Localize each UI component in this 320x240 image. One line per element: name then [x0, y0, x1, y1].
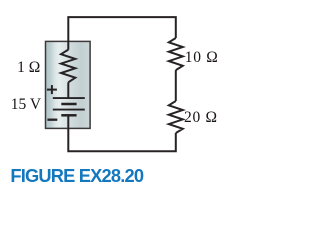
resistor 20ohm: [169, 101, 183, 133]
battery plate long: [53, 109, 85, 111]
wire between right resistors: [175, 70, 177, 101]
svg-text:15 V: 15 V: [11, 96, 42, 113]
svg-text:1 Ω: 1 Ω: [17, 59, 40, 76]
svg-text:20 Ω: 20 Ω: [184, 109, 218, 126]
minus terminal: [47, 119, 57, 121]
svg-text:10 Ω: 10 Ω: [185, 49, 219, 66]
resistor 10ohm: [169, 38, 183, 70]
wire resistor to battery: [67, 82, 69, 98]
wire top: [68, 17, 176, 50]
battery plate short: [61, 103, 76, 106]
battery highlight box: [46, 41, 91, 128]
svg-text:FIGURE EX28.20: FIGURE EX28.20: [10, 165, 143, 186]
plus terminal: [47, 85, 57, 94]
wire battery to bottom, bottom wire, up right side: [68, 115, 176, 151]
resistor R1 1ohm: [61, 50, 75, 83]
battery plate short bottom: [61, 114, 76, 117]
battery 15V plate long top: [53, 97, 85, 99]
